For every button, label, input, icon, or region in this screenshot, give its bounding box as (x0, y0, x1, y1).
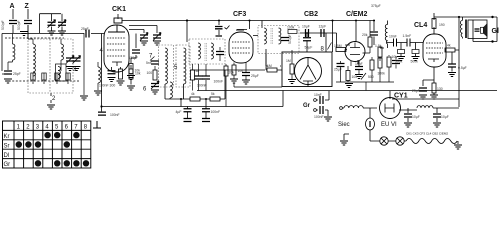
svg-text:CL4: CL4 (414, 22, 427, 29)
svg-text:12pF: 12pF (319, 25, 327, 29)
svg-text:CF3: CF3 (233, 11, 246, 18)
svg-text:1.5M: 1.5M (334, 44, 342, 48)
svg-text:100nF: 100nF (214, 80, 224, 84)
svg-text:EU VI: EU VI (381, 122, 397, 128)
svg-text:Z: Z (25, 3, 30, 10)
svg-text:CY1: CY1 (394, 93, 408, 100)
svg-text:500pF: 500pF (288, 34, 292, 44)
svg-text:CB2: CB2 (304, 11, 318, 18)
svg-text:4µF: 4µF (176, 110, 182, 114)
svg-text:8: 8 (84, 125, 88, 131)
svg-text:500pF: 500pF (1, 20, 5, 30)
svg-text:3: 3 (36, 125, 40, 131)
svg-text:25pF: 25pF (13, 72, 21, 76)
svg-text:5k: 5k (211, 92, 215, 96)
svg-text:Siec: Siec (338, 122, 350, 128)
svg-text:Dl: Dl (4, 153, 10, 159)
svg-text:C/EM2: C/EM2 (346, 11, 368, 18)
svg-text:6: 6 (65, 125, 69, 131)
svg-text:10k: 10k (135, 69, 141, 73)
svg-text:4k: 4k (191, 92, 195, 96)
svg-text:10µF: 10µF (441, 115, 449, 119)
svg-text:20k: 20k (362, 33, 368, 37)
svg-text:10nF: 10nF (389, 35, 397, 39)
svg-text:1M: 1M (267, 64, 272, 68)
svg-text:4: 4 (100, 48, 104, 54)
svg-text:4: 4 (45, 125, 49, 131)
svg-text:5nF: 5nF (146, 61, 152, 65)
svg-text:10nF: 10nF (314, 93, 322, 97)
svg-text:10k: 10k (392, 55, 398, 59)
svg-text:100nF: 100nF (211, 110, 221, 114)
svg-text:100k: 100k (287, 26, 295, 30)
svg-text:1.5nF: 1.5nF (403, 34, 412, 38)
svg-text:1: 1 (17, 125, 21, 131)
svg-text:130: 130 (437, 87, 443, 91)
svg-text:Kr: Kr (4, 134, 10, 140)
svg-text:50µF: 50µF (305, 46, 313, 50)
svg-text:375µF: 375µF (371, 4, 381, 8)
svg-text:1M: 1M (286, 59, 291, 63)
svg-text:25µF: 25µF (412, 89, 420, 93)
svg-text:Gr: Gr (303, 103, 311, 109)
svg-text:5: 5 (174, 65, 178, 71)
svg-text:Sr: Sr (4, 143, 10, 149)
svg-text:1.5k: 1.5k (375, 44, 382, 48)
svg-text:A: A (10, 3, 15, 10)
svg-text:10µF: 10µF (302, 25, 310, 29)
svg-text:2: 2 (52, 96, 56, 102)
svg-text:100nF 300: 100nF 300 (99, 84, 115, 88)
svg-text:7: 7 (74, 125, 78, 131)
svg-text:Gr: Gr (4, 162, 11, 168)
svg-text:100nF: 100nF (110, 113, 120, 117)
svg-text:20k: 20k (229, 71, 235, 75)
svg-text:300k: 300k (378, 72, 386, 76)
svg-text:25µF: 25µF (251, 74, 259, 78)
svg-text:150pF: 150pF (129, 56, 139, 60)
svg-text:25pF: 25pF (81, 27, 89, 31)
svg-text:100nF: 100nF (314, 115, 324, 119)
svg-text:Gl: Gl (492, 28, 499, 35)
svg-text:190: 190 (439, 23, 445, 27)
svg-text:2: 2 (26, 125, 30, 131)
svg-text:100: 100 (147, 71, 153, 75)
svg-text:CK1 CK3 CF3 CL4 CB2 C/EM2: CK1 CK3 CF3 CL4 CB2 C/EM2 (406, 132, 448, 136)
svg-text:5: 5 (55, 125, 59, 131)
svg-text:10µF: 10µF (412, 115, 420, 119)
svg-text:CK1: CK1 (112, 6, 126, 13)
svg-text:500pF: 500pF (17, 20, 21, 30)
svg-text:6: 6 (143, 87, 147, 93)
svg-text:500: 500 (368, 75, 374, 79)
svg-text:4k: 4k (447, 44, 451, 48)
svg-text:0.5µF: 0.5µF (458, 66, 467, 70)
